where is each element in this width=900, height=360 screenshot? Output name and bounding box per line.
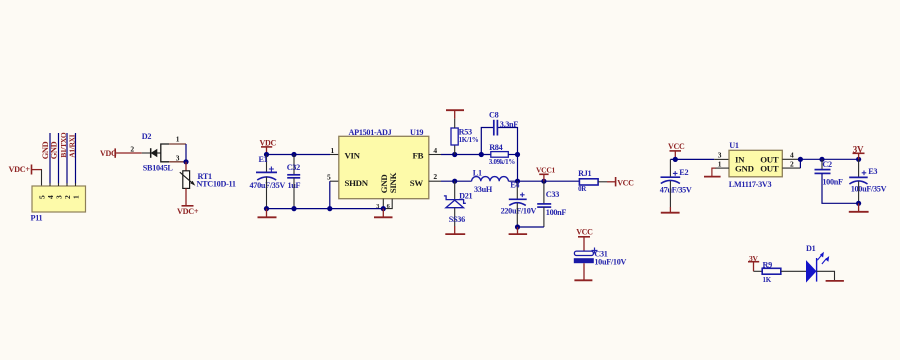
svg-text:RJ1: RJ1	[578, 169, 591, 178]
wire pin 1	[75, 133, 77, 186]
wire VDC to D2 pin 2	[115, 152, 150, 154]
power port VDC (left of D2)	[100, 148, 117, 158]
regulator U1 LM1117-3V3 body	[729, 150, 782, 177]
wire pin2 riser	[799, 159, 801, 168]
svg-text:AP1501-ADJ: AP1501-ADJ	[349, 128, 392, 137]
junction (E4 bottom)	[515, 224, 520, 229]
ground (below C31)	[574, 263, 592, 280]
svg-text:GND: GND	[735, 164, 754, 174]
svg-text:SW: SW	[410, 178, 424, 188]
wire R84 right to FB node	[508, 154, 517, 156]
capacitor C2	[815, 159, 859, 203]
wire E4/C33 bottom rail	[518, 226, 544, 228]
svg-text:2: 2	[790, 159, 794, 168]
svg-text:SS36: SS36	[449, 215, 465, 224]
diode D21 SS36	[444, 181, 466, 226]
svg-text:E4: E4	[510, 181, 519, 190]
power port VDC (above E1)	[260, 139, 277, 155]
junction (C32 bottom)	[291, 206, 296, 211]
wire RJ1 to VCC port	[598, 181, 616, 183]
junction (E3 top)	[856, 157, 861, 162]
svg-text:E3: E3	[868, 167, 877, 176]
svg-text:VIN: VIN	[345, 151, 361, 161]
svg-text:U19: U19	[410, 128, 423, 137]
wire bottom rail	[267, 208, 384, 210]
pin 1 stub U19	[330, 154, 339, 156]
svg-text:1: 1	[71, 195, 80, 199]
wire FB row	[441, 154, 491, 156]
ground (below E4)	[509, 227, 527, 234]
svg-text:L1: L1	[473, 168, 482, 177]
svg-text:220uF/10V: 220uF/10V	[501, 207, 537, 216]
svg-text:100nF: 100nF	[546, 208, 567, 217]
svg-text:100uF/35V: 100uF/35V	[851, 185, 887, 194]
power port VCC (above C31)	[576, 228, 593, 251]
junction (SHDN drop)	[327, 206, 332, 211]
regulator U19 AP1501-ADJ body	[339, 136, 429, 198]
junction (U19 gnd)	[381, 206, 386, 211]
connector P11	[32, 186, 86, 212]
inductor L1	[472, 177, 509, 182]
svg-text:C33: C33	[546, 190, 559, 199]
svg-text:NTC10D-11: NTC10D-11	[197, 180, 236, 189]
junction (C8/R84 right)	[515, 152, 520, 157]
svg-text:10uF/10V: 10uF/10V	[594, 258, 626, 267]
svg-text:1: 1	[331, 146, 335, 155]
pin 2 stub U19	[429, 180, 441, 182]
wire pin 3	[58, 133, 60, 186]
pin 2 stub U1	[782, 167, 800, 169]
svg-text:1K: 1K	[763, 276, 772, 284]
svg-text:A1/RXI: A1/RXI	[68, 134, 77, 157]
capacitor E1 (electrolytic 470uF/35V)	[250, 155, 286, 209]
ground (below E3)	[849, 203, 869, 212]
wire VIN rail	[267, 154, 331, 156]
pin 3 stub U1	[714, 158, 729, 160]
junction (D21 top)	[452, 179, 457, 184]
pin 4 stub U19	[429, 154, 441, 156]
capacitor C33	[537, 181, 566, 227]
svg-text:U1: U1	[729, 141, 739, 150]
pin 4 stub U1	[782, 158, 800, 160]
wire VDC+ to P11 pin 5	[32, 170, 43, 186]
wire SW row	[441, 180, 472, 182]
junction (C32 top)	[291, 152, 296, 157]
wire R9 to D1	[781, 270, 807, 272]
ground (below D21)	[445, 226, 465, 234]
svg-text:2: 2	[130, 144, 134, 153]
svg-text:D2: D2	[142, 132, 152, 141]
svg-text:3.09k/1%: 3.09k/1%	[489, 158, 515, 166]
svg-text:C32: C32	[287, 163, 300, 172]
svg-text:100nF: 100nF	[822, 177, 843, 186]
pin 3 stub (U19 bottom)	[382, 199, 384, 209]
pin 1 stub U1 + ground	[704, 168, 729, 177]
svg-text:3: 3	[376, 203, 379, 210]
svg-text:SB1045L: SB1045L	[143, 163, 174, 172]
svg-text:33uH: 33uH	[474, 185, 493, 194]
junction (E3 bottom)	[856, 201, 861, 206]
junction (E2 top)	[673, 157, 678, 162]
power bar (above R53)	[446, 110, 464, 118]
svg-text:FB: FB	[413, 151, 424, 161]
svg-text:VCC1: VCC1	[536, 166, 556, 175]
svg-text:D1: D1	[806, 244, 816, 253]
svg-text:C8: C8	[489, 111, 499, 120]
diode D2 symbol	[151, 148, 161, 158]
power port 3V (above E3)	[853, 145, 865, 160]
svg-text:5: 5	[327, 173, 331, 182]
svg-text:4: 4	[790, 151, 794, 160]
ground (below E2)	[661, 207, 680, 213]
ground (below U19)	[374, 209, 393, 218]
wire D1 to ground	[817, 271, 835, 280]
junction (C2 top)	[819, 157, 824, 162]
thermistor RT1	[180, 171, 196, 189]
power port VCC1	[536, 166, 556, 182]
svg-text:D21: D21	[459, 192, 472, 201]
svg-text:6: 6	[387, 203, 390, 210]
power port 3V (left of R9)	[748, 254, 759, 271]
resistor RJ1	[579, 179, 598, 185]
resistor R53	[451, 119, 458, 155]
wire output rail	[800, 158, 858, 160]
svg-text:OUT: OUT	[760, 164, 779, 174]
power port VCC (right of RJ1)	[616, 177, 635, 188]
svg-text:47uF/35V: 47uF/35V	[660, 185, 692, 194]
junction (D2 node)	[183, 159, 188, 164]
capacitor C32	[287, 155, 301, 209]
svg-text:3: 3	[718, 151, 722, 160]
capacitor C31 (polarized 10uF/10V)	[574, 248, 627, 267]
power port VCC (above E2)	[668, 142, 685, 159]
capacitor E3 (electrolytic 100uF/35V)	[849, 159, 886, 203]
svg-text:1K/1%: 1K/1%	[459, 136, 479, 144]
junction (E4 top / divider)	[515, 179, 520, 184]
power port VDC+ (below RT1)	[177, 206, 199, 216]
svg-text:E2: E2	[679, 168, 688, 177]
svg-text:1: 1	[718, 159, 722, 168]
ground (below E1)	[258, 209, 277, 218]
junction (R53 bottom)	[452, 152, 457, 157]
LED D1	[807, 252, 830, 282]
capacitor E2 (electrolytic 47uF/35V)	[660, 159, 692, 207]
diode D2 body outline	[161, 144, 186, 162]
resistor R9	[762, 268, 781, 274]
capacitor E4 (electrolytic 220uF/10V)	[501, 181, 537, 227]
svg-text:VCC: VCC	[576, 228, 593, 237]
svg-text:E1: E1	[259, 155, 268, 164]
svg-text:VDC+: VDC+	[9, 165, 31, 174]
pin 6 stub (U19 bottom)	[383, 199, 392, 209]
capacitor C8 branch wire	[481, 128, 517, 155]
ground (below D1)	[826, 280, 844, 282]
pin 5 stub U19 + wire to rail	[330, 181, 339, 208]
wire 3V to R9	[754, 270, 763, 272]
svg-text:C2: C2	[822, 160, 832, 169]
svg-text:LM1117-3V3: LM1117-3V3	[729, 180, 772, 189]
power port VDC+ (left of P11)	[9, 165, 32, 175]
svg-text:0R: 0R	[578, 185, 587, 193]
junction (U1 out)	[798, 157, 803, 162]
svg-text:R9: R9	[763, 261, 773, 270]
wire D2 to RT1	[185, 162, 187, 171]
svg-text:R84: R84	[489, 143, 502, 152]
resistor R84	[491, 152, 509, 158]
svg-text:VCC: VCC	[617, 179, 634, 188]
wire VCC to U1 pin 3	[670, 158, 714, 160]
wire RT1 to VDC+	[185, 188, 187, 205]
svg-text:VDC+: VDC+	[177, 207, 199, 216]
svg-text:3: 3	[176, 153, 180, 162]
svg-text:P11: P11	[31, 214, 43, 223]
svg-text:2: 2	[433, 172, 437, 181]
svg-text:GND: GND	[49, 141, 58, 159]
wire FB divider drop	[517, 155, 519, 182]
svg-text:470uF/35V: 470uF/35V	[250, 181, 286, 190]
svg-text:4: 4	[433, 146, 437, 155]
junction (E1 bottom)	[264, 206, 269, 211]
wire pin 2	[66, 133, 68, 186]
svg-text:SHDN: SHDN	[345, 178, 369, 188]
svg-text:3.3nF: 3.3nF	[500, 120, 519, 129]
wire pin 4	[49, 133, 51, 186]
svg-text:1: 1	[176, 135, 180, 144]
junction (E1 top)	[264, 152, 269, 157]
svg-text:SINK: SINK	[388, 172, 398, 193]
wire L1 to output node	[508, 180, 579, 182]
wire D2 pin1 to pin3	[185, 144, 187, 162]
junction (C33 top / VCC1)	[541, 179, 546, 184]
capacitor C8	[494, 120, 498, 136]
junction (C8/R84 left)	[479, 152, 484, 157]
svg-text:VCC: VCC	[668, 142, 685, 151]
